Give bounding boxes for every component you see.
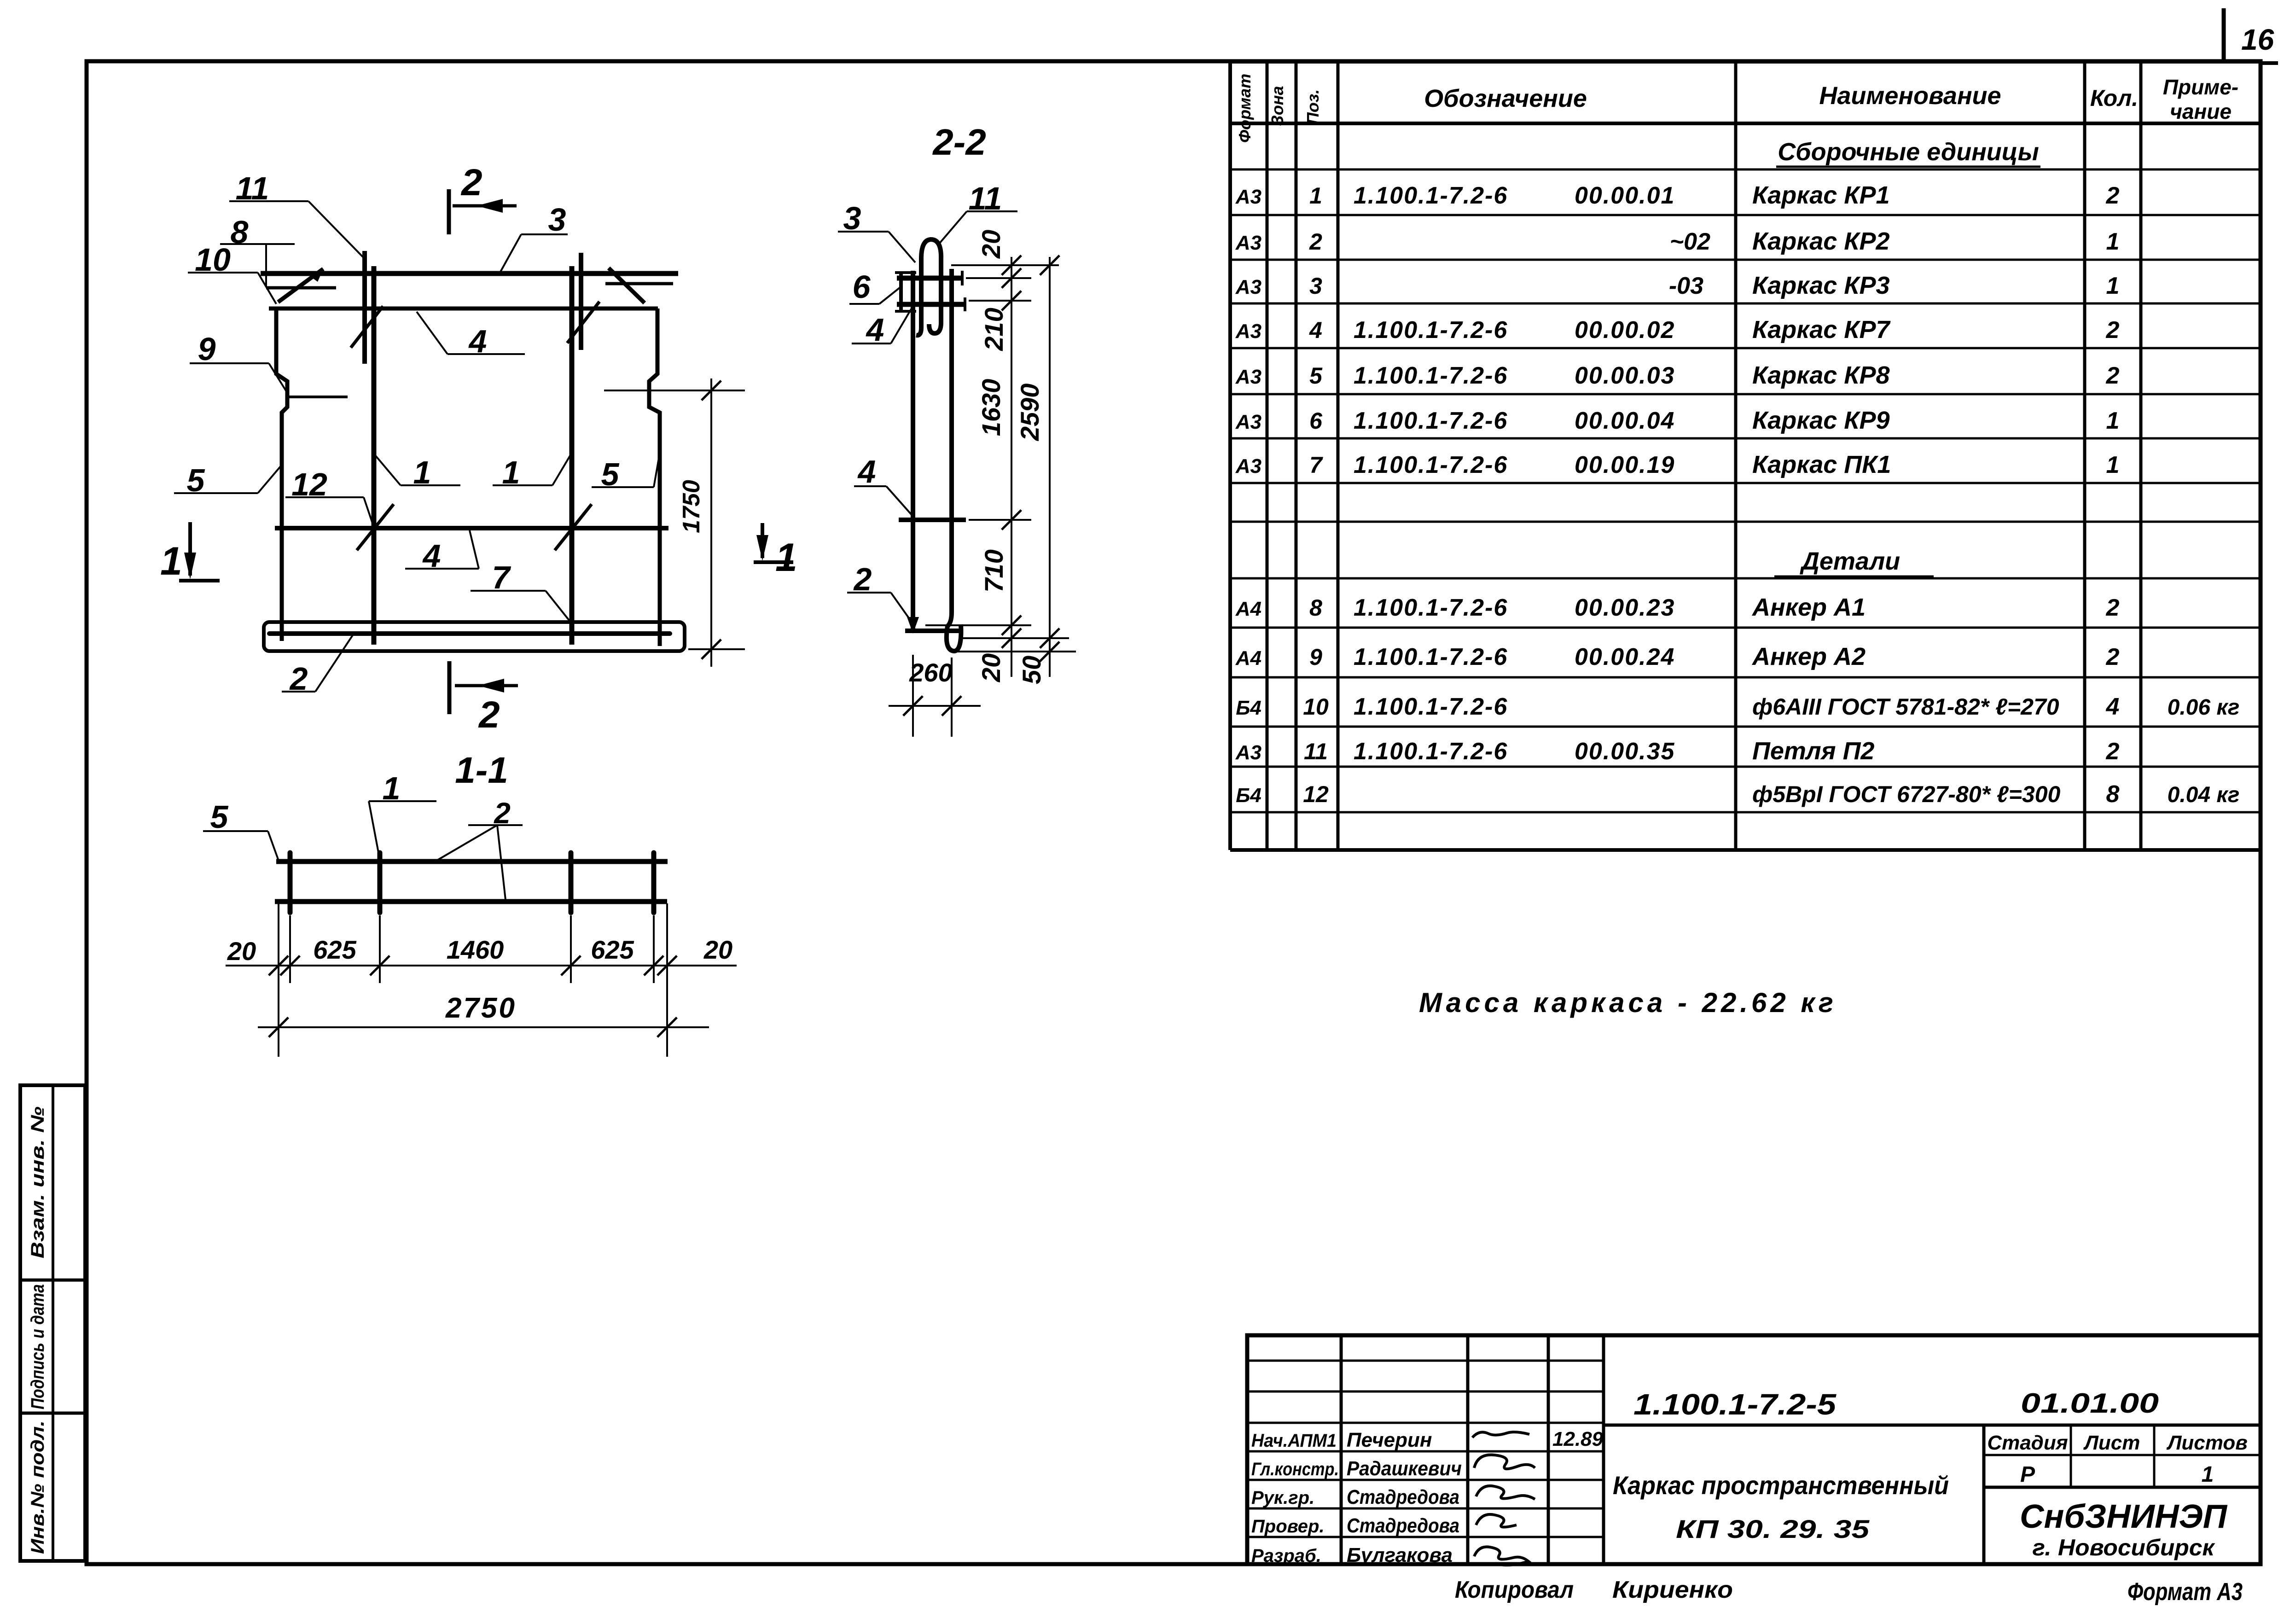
svg-text:Рук.гр.: Рук.гр. xyxy=(1251,1488,1314,1508)
svg-text:Каркас КР8: Каркас КР8 xyxy=(1752,361,1890,389)
svg-text:1.100.1-7.2-6: 1.100.1-7.2-6 xyxy=(1354,594,1508,621)
dimension 1750 xyxy=(604,378,745,667)
svg-text:Стадредова: Стадредова xyxy=(1347,1486,1459,1508)
section mark 1 right xyxy=(754,523,793,562)
svg-text:1.100.1-7.2-6: 1.100.1-7.2-6 xyxy=(1354,182,1508,209)
left contour of frame xyxy=(276,309,287,641)
svg-text:Б4: Б4 xyxy=(1236,697,1261,719)
svg-text:2590: 2590 xyxy=(1015,384,1044,442)
callout 1 xyxy=(493,454,570,490)
spec row 1: Каркас КР1 xyxy=(1235,181,2120,209)
svg-text:Анкер А2: Анкер А2 xyxy=(1751,643,1866,670)
svg-text:Р: Р xyxy=(2020,1462,2035,1487)
svg-text:1: 1 xyxy=(1309,183,1322,209)
svg-text:Зона: Зона xyxy=(1268,86,1287,126)
svg-text:Формат: Формат xyxy=(1235,74,1254,143)
svg-text:2: 2 xyxy=(2106,738,2120,765)
svg-text:50: 50 xyxy=(1017,656,1046,684)
svg-text:9: 9 xyxy=(1309,644,1322,670)
callout 4 xyxy=(405,530,479,574)
svg-text:2: 2 xyxy=(2106,644,2120,670)
spec row 3: Каркас КР3 xyxy=(1235,272,2120,299)
dimension 260 xyxy=(889,655,981,737)
svg-text:Каркас КР7: Каркас КР7 xyxy=(1752,316,1891,343)
svg-text:Радашкевич: Радашкевич xyxy=(1347,1457,1462,1480)
svg-text:210: 210 xyxy=(979,308,1008,351)
signature squiggle 3 xyxy=(1476,1486,1535,1499)
callout 11 xyxy=(940,180,1017,243)
svg-text:4: 4 xyxy=(866,312,884,348)
section 2-2 extension lines xyxy=(925,265,1076,652)
svg-text:1630: 1630 xyxy=(976,379,1006,437)
callout 5 xyxy=(174,462,281,498)
svg-text:2: 2 xyxy=(2106,362,2120,389)
top bar left anchor slash xyxy=(278,269,323,302)
spec row 10: ф6АIII ГОСТ 5781-82* ℓ=270 xyxy=(1236,693,2239,720)
svg-text:12: 12 xyxy=(1303,781,1329,807)
svg-text:2: 2 xyxy=(478,694,500,736)
callout 9 xyxy=(190,331,286,391)
svg-text:1.100.1-7.2-6: 1.100.1-7.2-6 xyxy=(1354,693,1508,720)
svg-text:2: 2 xyxy=(2106,594,2120,621)
svg-text:ф6АIII ГОСТ 5781-82* ℓ=270: ф6АIII ГОСТ 5781-82* ℓ=270 xyxy=(1752,694,2059,720)
title row Провер. xyxy=(1251,1514,1459,1537)
top border extension xyxy=(2261,61,2278,65)
callout 3 xyxy=(500,202,568,273)
spec row 2: Каркас КР2 xyxy=(1235,227,2120,255)
svg-text:1: 1 xyxy=(2202,1462,2214,1487)
svg-text:2: 2 xyxy=(2106,317,2120,343)
loop bar 2 xyxy=(378,853,383,913)
svg-text:1.100.1-7.2-5: 1.100.1-7.2-5 xyxy=(1633,1388,1837,1421)
svg-text:20: 20 xyxy=(703,935,732,964)
callout 1 xyxy=(369,770,436,865)
svg-text:00.00.03: 00.00.03 xyxy=(1575,362,1675,389)
callout 4 xyxy=(852,308,912,348)
top bar right anchor slash xyxy=(609,268,645,303)
spec row 9: Анкер А2 xyxy=(1235,643,2120,670)
svg-text:Б4: Б4 xyxy=(1236,784,1261,807)
svg-text:8: 8 xyxy=(1309,595,1322,621)
svg-text:Наименование: Наименование xyxy=(1819,82,2001,110)
svg-text:5: 5 xyxy=(210,799,229,835)
svg-text:Инв.№ подл.: Инв.№ подл. xyxy=(28,1420,48,1554)
svg-text:Копировал: Копировал xyxy=(1455,1577,1574,1603)
svg-text:А3: А3 xyxy=(1235,455,1261,477)
svg-text:1-1: 1-1 xyxy=(455,750,508,791)
svg-text:Стадредова: Стадредова xyxy=(1347,1514,1459,1537)
callout 1 xyxy=(376,454,460,490)
anchor hook А2 xyxy=(947,612,961,651)
specification table grid xyxy=(1230,62,2261,850)
svg-text:Разраб.: Разраб. xyxy=(1251,1546,1321,1566)
section 2-2 left bar xyxy=(911,271,915,630)
top bar right tick xyxy=(605,282,673,285)
svg-text:1: 1 xyxy=(160,539,182,583)
svg-text:00.00.04: 00.00.04 xyxy=(1575,407,1675,434)
svg-text:А3: А3 xyxy=(1235,741,1261,764)
svg-text:00.00.19: 00.00.19 xyxy=(1575,452,1675,478)
svg-text:00.00.02: 00.00.02 xyxy=(1575,317,1675,343)
svg-text:00.00.01: 00.00.01 xyxy=(1575,182,1675,209)
svg-text:0.04 кг: 0.04 кг xyxy=(2168,783,2240,807)
svg-text:ф5ВрI ГОСТ 6727-80* ℓ=300: ф5ВрI ГОСТ 6727-80* ℓ=300 xyxy=(1752,781,2061,807)
svg-text:6: 6 xyxy=(1309,408,1323,434)
svg-text:4: 4 xyxy=(857,454,876,489)
bottom bar 2 tick xyxy=(905,629,961,633)
svg-text:3: 3 xyxy=(1309,273,1322,299)
svg-text:4: 4 xyxy=(2106,693,2120,720)
svg-text:Нач.АПМ1: Нач.АПМ1 xyxy=(1251,1431,1337,1451)
bar 4 end-on tick xyxy=(897,302,966,307)
signature squiggle 1 xyxy=(1472,1432,1529,1438)
middle bar left weld slash xyxy=(357,504,394,550)
right loop П2 item 11 (edge view) xyxy=(579,253,583,350)
svg-text:1: 1 xyxy=(775,536,797,580)
middle bar right weld slash xyxy=(555,504,592,550)
spec row 12: ф5ВрI ГОСТ 6727-80* ℓ=300 xyxy=(1236,781,2239,808)
bar 3 end-on tick xyxy=(897,276,962,281)
bar end caps right xyxy=(962,271,965,311)
middle bar item 4 lower xyxy=(275,526,668,530)
svg-text:3: 3 xyxy=(548,202,566,238)
svg-text:Поз.: Поз. xyxy=(1303,89,1322,124)
svg-text:Подпись и дата: Подпись и дата xyxy=(28,1284,48,1409)
section mark 2 top xyxy=(449,189,517,234)
signature squiggle 4 xyxy=(1476,1514,1517,1527)
section 1-1 extension lines xyxy=(279,903,667,1057)
title row Разраб. xyxy=(1251,1544,1453,1566)
section 1-1 top bar xyxy=(276,859,668,864)
svg-text:1: 1 xyxy=(2106,452,2120,478)
svg-text:1: 1 xyxy=(2106,407,2120,434)
callout 2 xyxy=(282,633,354,697)
svg-text:1.100.1-7.2-6: 1.100.1-7.2-6 xyxy=(1354,407,1508,434)
svg-text:Провер.: Провер. xyxy=(1251,1516,1325,1537)
section mark 1 left xyxy=(179,522,220,581)
spec row 8: Анкер А1 xyxy=(1235,594,2120,621)
svg-text:Каркас КР3: Каркас КР3 xyxy=(1752,272,1890,299)
svg-text:1460: 1460 xyxy=(447,935,504,964)
svg-text:Обозначение: Обозначение xyxy=(1424,85,1587,112)
section 1-1 bottom bar xyxy=(275,899,667,904)
svg-text:6: 6 xyxy=(853,269,871,305)
svg-text:А3: А3 xyxy=(1235,186,1261,208)
bottom plate item 7 xyxy=(264,622,685,651)
svg-text:Кол.: Кол. xyxy=(2090,85,2138,111)
svg-text:Детали: Детали xyxy=(1800,547,1900,575)
svg-text:А3: А3 xyxy=(1235,232,1261,254)
callout 8 pointer xyxy=(265,244,267,286)
callout 11 xyxy=(229,170,366,260)
dimension row 20/625/1460/625/20 xyxy=(226,935,737,975)
svg-text:2: 2 xyxy=(460,162,482,204)
svg-text:2: 2 xyxy=(2106,182,2120,209)
svg-text:Гл.констр.: Гл.констр. xyxy=(1251,1459,1339,1479)
bottom plate bar item 2 xyxy=(269,631,670,636)
svg-text:Каркас пространственный: Каркас пространственный xyxy=(1613,1471,1949,1500)
svg-text:КП 30. 29. 35: КП 30. 29. 35 xyxy=(1676,1514,1870,1543)
dimension chain 2590/50 xyxy=(1015,256,1059,684)
svg-text:2750: 2750 xyxy=(445,992,517,1024)
svg-text:20: 20 xyxy=(976,653,1006,682)
section mark 2 bottom xyxy=(449,661,518,714)
svg-text:01.01.00: 01.01.00 xyxy=(2021,1388,2159,1419)
callout 8 xyxy=(220,214,295,250)
svg-text:2: 2 xyxy=(1309,229,1322,255)
svg-text:чание: чание xyxy=(2170,99,2232,123)
spec row 5: Каркас КР8 xyxy=(1235,361,2120,389)
svg-text:1.100.1-7.2-6: 1.100.1-7.2-6 xyxy=(1354,644,1508,670)
svg-text:Каркас КР9: Каркас КР9 xyxy=(1752,407,1890,434)
callout 5 xyxy=(592,456,659,492)
svg-text:1.100.1-7.2-6: 1.100.1-7.2-6 xyxy=(1354,362,1508,389)
svg-text:00.00.23: 00.00.23 xyxy=(1575,594,1675,621)
svg-text:8: 8 xyxy=(2106,781,2120,808)
svg-text:Каркас КР2: Каркас КР2 xyxy=(1752,227,1890,255)
loop bar 1 xyxy=(288,853,293,913)
title row Гл.констр. xyxy=(1251,1457,1462,1480)
loop bar 3 xyxy=(569,853,574,913)
svg-text:20: 20 xyxy=(227,937,256,966)
left margin stamp strip xyxy=(20,1085,85,1561)
svg-text:16: 16 xyxy=(2241,23,2274,56)
svg-text:625: 625 xyxy=(591,935,634,964)
clamp item 6 xyxy=(895,272,916,312)
callout 6 xyxy=(849,269,900,305)
svg-text:~02: ~02 xyxy=(1670,228,1710,255)
right contour of frame xyxy=(649,309,660,646)
callout 7 xyxy=(471,559,571,623)
svg-text:Петля П2: Петля П2 xyxy=(1752,737,1874,765)
svg-text:1: 1 xyxy=(2106,273,2120,299)
svg-text:г. Новосибирск: г. Новосибирск xyxy=(2033,1535,2216,1560)
left loop weld slash xyxy=(351,306,383,348)
signature squiggle 2 xyxy=(1474,1455,1535,1469)
svg-text:00.00.24: 00.00.24 xyxy=(1575,644,1675,670)
right vertical bar item 1 xyxy=(570,266,575,645)
node: notch pointer line item 9 xyxy=(287,396,348,398)
section 2-2 right bar xyxy=(949,269,954,612)
svg-text:5: 5 xyxy=(1309,363,1323,389)
left loop П2 item 11 (edge view) xyxy=(362,251,367,364)
svg-text:Листов: Листов xyxy=(2166,1432,2248,1454)
svg-text:12.89: 12.89 xyxy=(1552,1428,1604,1450)
svg-text:1.100.1-7.2-6: 1.100.1-7.2-6 xyxy=(1354,738,1508,765)
dimension chain 20/210/1630/710/20 xyxy=(976,230,1021,682)
top bar left tick xyxy=(266,286,336,290)
callout 5 xyxy=(203,799,278,859)
svg-text:А3: А3 xyxy=(1235,276,1261,298)
title row Нач.АПМ1 xyxy=(1251,1429,1432,1451)
title row Рук.гр. xyxy=(1251,1486,1459,1508)
callout 2 xyxy=(847,561,912,623)
svg-text:11: 11 xyxy=(1304,739,1328,764)
svg-text:Анкер А1: Анкер А1 xyxy=(1751,594,1866,621)
svg-text:710: 710 xyxy=(979,549,1008,592)
svg-text:0.06 кг: 0.06 кг xyxy=(2168,695,2240,720)
svg-text:-03: -03 xyxy=(1669,273,1703,299)
svg-text:Приме-: Приме- xyxy=(2163,75,2238,99)
svg-text:20: 20 xyxy=(976,230,1006,259)
svg-text:260: 260 xyxy=(909,658,952,687)
bottom left bar arrow end xyxy=(907,617,919,634)
right loop weld slash xyxy=(567,302,599,343)
title block grid xyxy=(1247,1335,2261,1564)
svg-text:2-2: 2-2 xyxy=(932,122,986,163)
signature squiggle 5 xyxy=(1474,1547,1529,1565)
svg-text:Булгакова: Булгакова xyxy=(1347,1544,1453,1566)
svg-text:А3: А3 xyxy=(1235,411,1261,433)
svg-text:Кириенко: Кириенко xyxy=(1612,1577,1733,1603)
svg-text:Каркас ПК1: Каркас ПК1 xyxy=(1752,451,1891,478)
spec row 4: Каркас КР7 xyxy=(1235,316,2120,343)
svg-text:А4: А4 xyxy=(1235,647,1261,669)
callout 2 fork xyxy=(437,797,523,900)
svg-text:А3: А3 xyxy=(1235,320,1261,343)
svg-text:А4: А4 xyxy=(1235,598,1261,620)
sheet number tick xyxy=(2222,8,2226,62)
callout 4 xyxy=(854,454,915,519)
spec row 7: Каркас ПК1 xyxy=(1235,451,2120,478)
top bar item 3 xyxy=(261,271,678,276)
svg-text:А3: А3 xyxy=(1235,366,1261,388)
lifting loop П2 item 11 xyxy=(916,239,941,335)
dimension 2750 xyxy=(258,992,709,1037)
callout 4 xyxy=(417,312,525,359)
svg-text:10: 10 xyxy=(1303,694,1329,720)
svg-text:1.100.1-7.2-6: 1.100.1-7.2-6 xyxy=(1354,317,1508,343)
svg-text:Формат А3: Формат А3 xyxy=(2127,1578,2243,1606)
svg-text:Сборочные единицы: Сборочные единицы xyxy=(1778,138,2039,166)
svg-text:СнбЗНИНЭП: СнбЗНИНЭП xyxy=(2020,1498,2228,1535)
svg-text:1750: 1750 xyxy=(678,480,705,533)
callout 3 xyxy=(838,200,915,262)
svg-text:00.00.35: 00.00.35 xyxy=(1575,738,1675,765)
svg-text:Масса каркаса - 22.62 кг: Масса каркаса - 22.62 кг xyxy=(1419,987,1837,1018)
svg-text:7: 7 xyxy=(1309,452,1323,478)
svg-text:Стадия: Стадия xyxy=(1987,1432,2068,1454)
callout 10 xyxy=(188,242,276,304)
loop bar 4 xyxy=(651,853,657,913)
upper bar item 4 xyxy=(269,307,658,311)
svg-text:Взам. инв. №: Взам. инв. № xyxy=(28,1106,48,1258)
svg-text:4: 4 xyxy=(1309,317,1322,343)
svg-text:Каркас КР1: Каркас КР1 xyxy=(1752,181,1890,209)
spec row 11: Петля П2 xyxy=(1235,737,2120,765)
callout 12 xyxy=(285,466,374,527)
svg-text:9: 9 xyxy=(198,331,216,367)
left vertical bar item 1 xyxy=(372,266,377,645)
svg-text:1.100.1-7.2-6: 1.100.1-7.2-6 xyxy=(1354,452,1508,478)
svg-text:1: 1 xyxy=(2106,228,2120,255)
svg-text:625: 625 xyxy=(313,935,356,964)
svg-text:Печерин: Печерин xyxy=(1347,1429,1432,1451)
mid bar 4 tick xyxy=(899,518,966,522)
svg-text:Лист: Лист xyxy=(2083,1432,2140,1454)
spec row 6: Каркас КР9 xyxy=(1235,407,2120,434)
